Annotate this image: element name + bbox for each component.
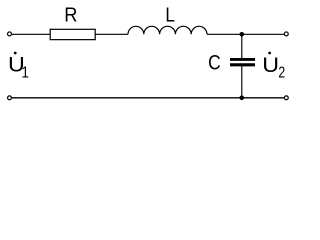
svg-text:R: R (64, 5, 77, 27)
svg-text:U: U (262, 54, 279, 77)
svg-text:L: L (165, 5, 175, 27)
svg-text:C: C (208, 52, 221, 75)
svg-text:1: 1 (21, 65, 29, 82)
svg-text:2: 2 (278, 65, 285, 82)
